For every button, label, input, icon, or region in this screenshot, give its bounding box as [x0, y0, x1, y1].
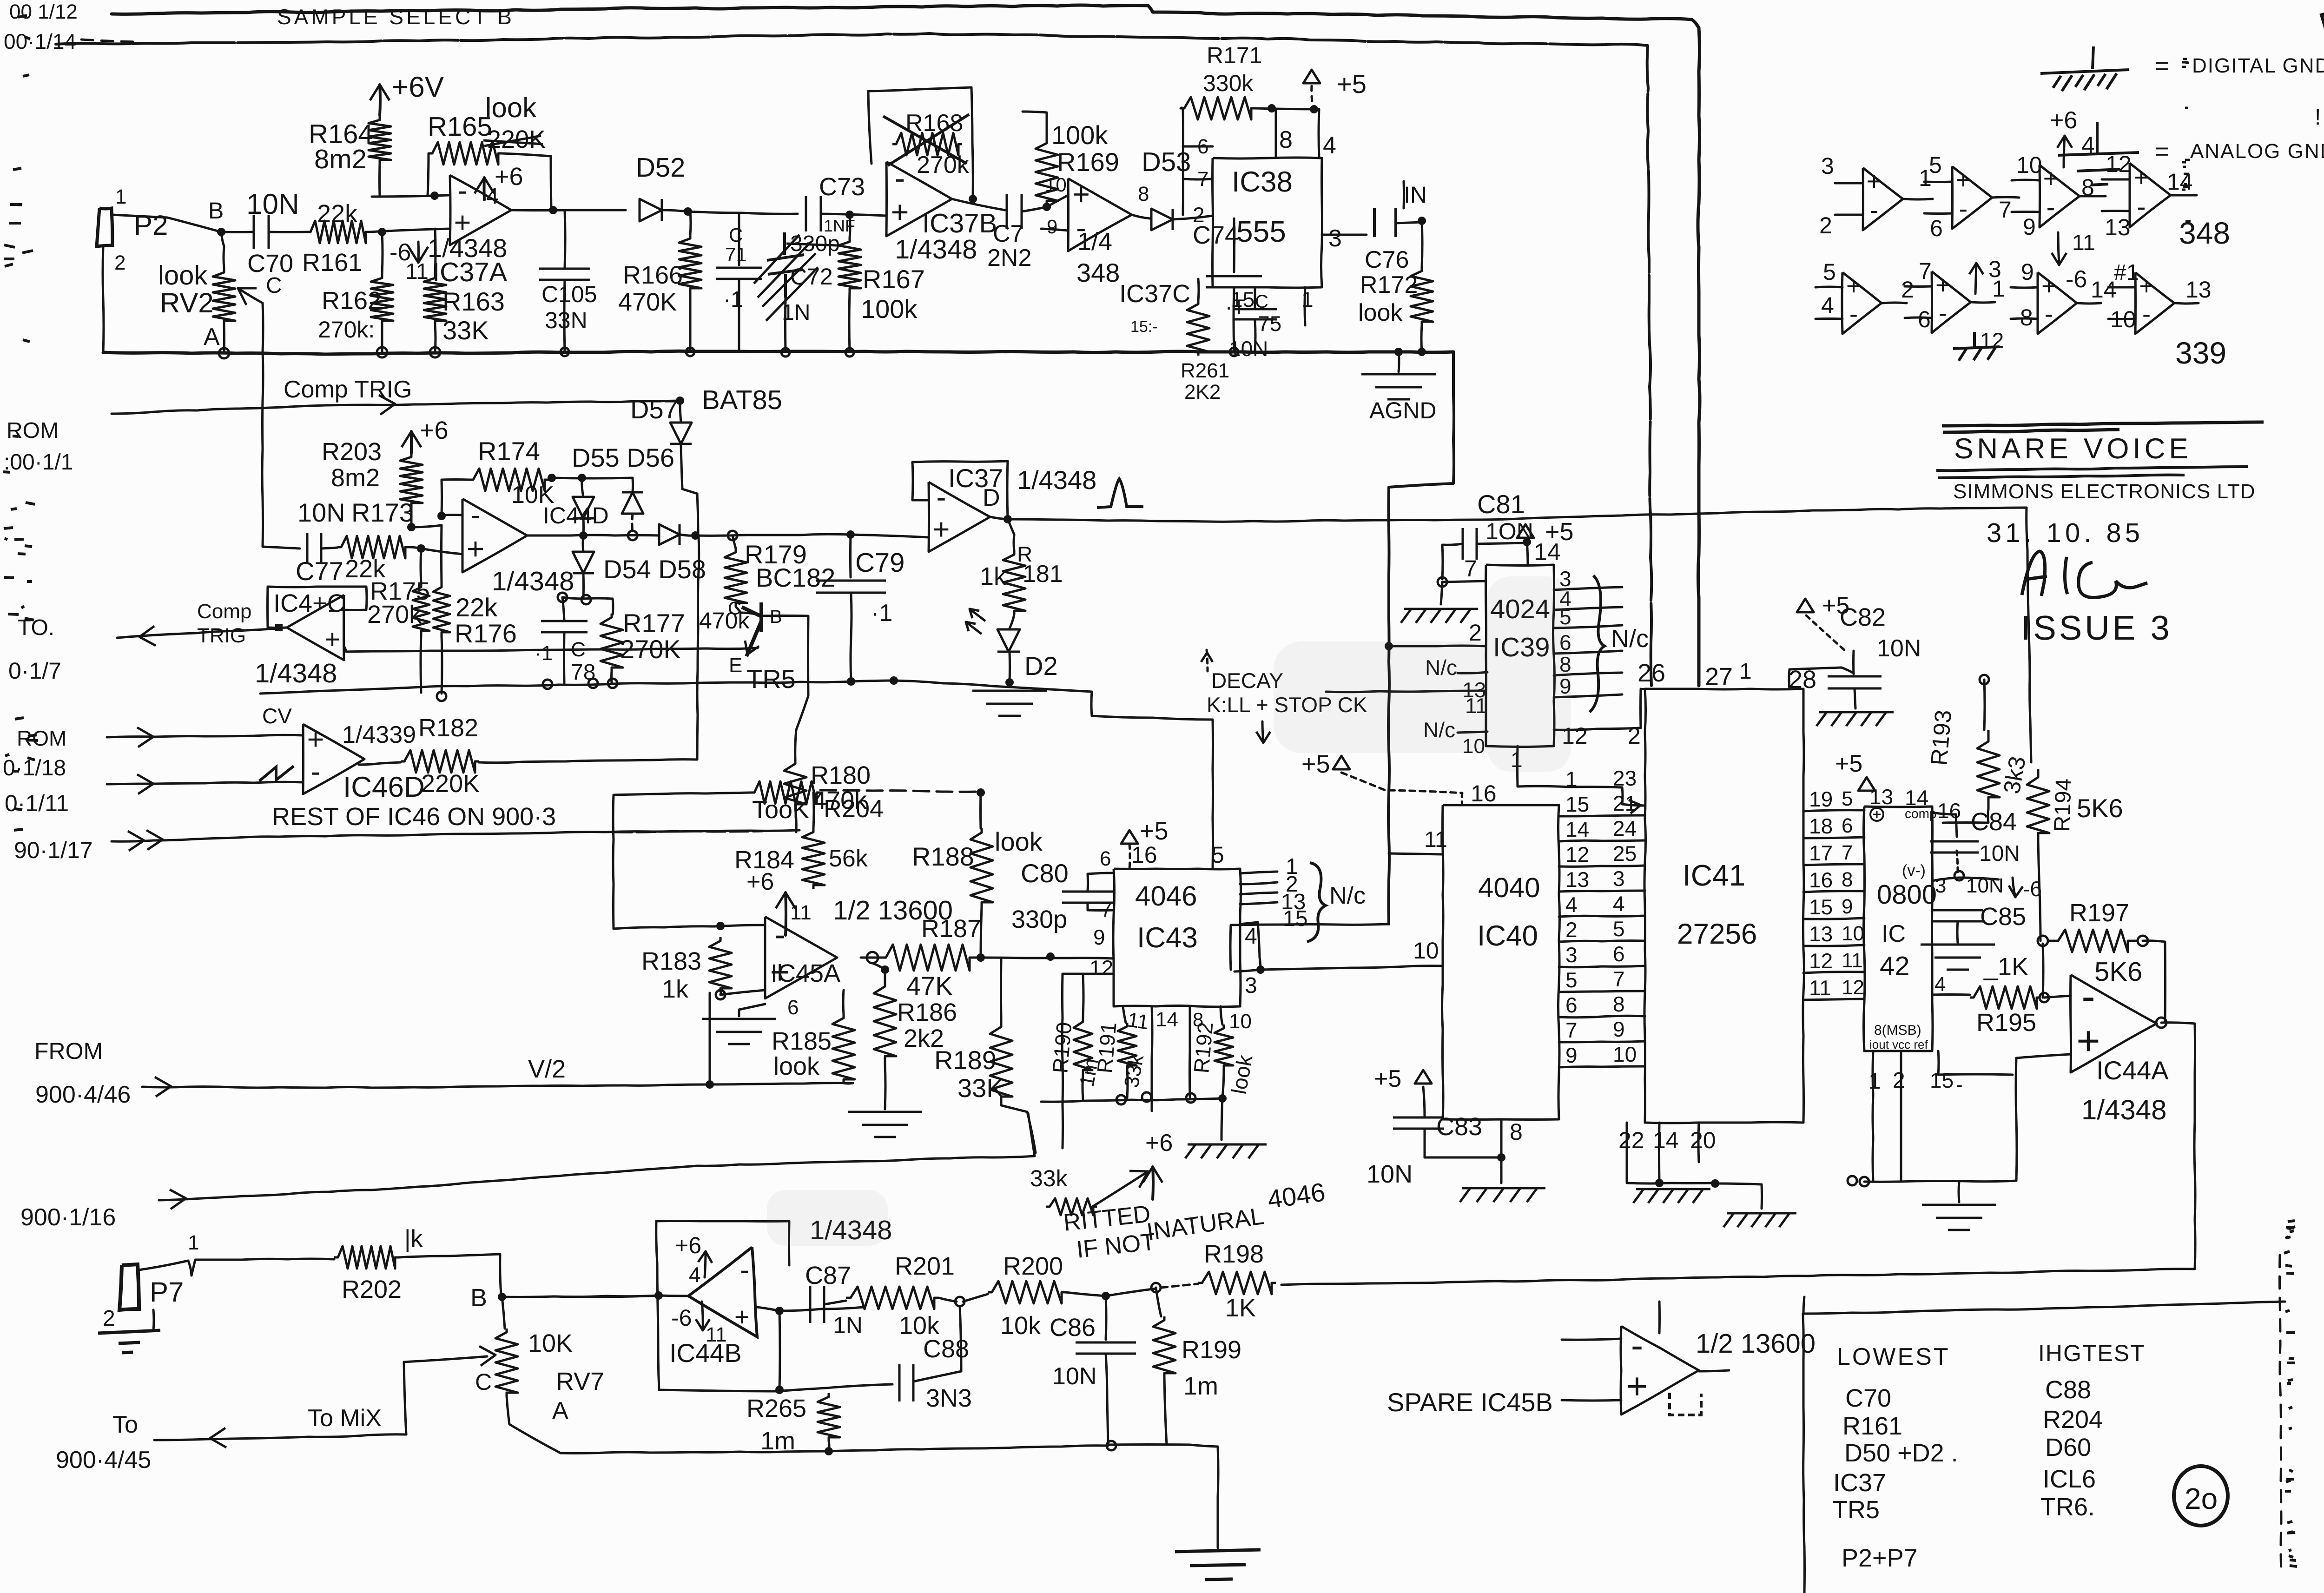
node gnd stub	[1218, 1094, 1227, 1103]
diode D57	[670, 423, 692, 444]
wire R200 right	[1065, 1289, 1156, 1296]
wire R165 left lead	[428, 153, 429, 196]
wire +5 to IC40 pin16	[1341, 773, 1462, 805]
svg-text:100k: 100k	[1051, 120, 1108, 150]
node R186 top	[881, 965, 889, 974]
svg-text:6: 6	[1842, 814, 1853, 837]
wire to C88	[826, 1384, 892, 1388]
svg-text:12: 12	[1565, 842, 1589, 866]
wire to R261	[1198, 279, 1199, 300]
resistor R161	[307, 221, 370, 243]
svg-text:R198: R198	[1204, 1240, 1264, 1268]
svg-text:R187: R187	[921, 915, 981, 943]
resistor R163	[424, 274, 446, 324]
svg-text:-: -	[740, 1254, 749, 1285]
node C73/R167	[845, 211, 854, 219]
power -6 arrow legend	[2058, 232, 2059, 265]
wire bottom rail output stage	[561, 1446, 1108, 1454]
svg-text:5: 5	[1842, 787, 1853, 810]
svg-text:R173: R173	[351, 498, 414, 527]
svg-text:R188: R188	[912, 842, 974, 871]
svg-text:270k: 270k	[917, 152, 970, 178]
wire V/2	[142, 1083, 853, 1088]
svg-text:10: 10	[1613, 1042, 1637, 1066]
wire C76 to node	[1396, 222, 1422, 223]
page number circle 20	[2174, 1466, 2228, 1526]
wire R174 right lead	[548, 478, 552, 480]
junction IC45A out	[867, 952, 878, 963]
resistor R198	[1198, 1272, 1276, 1294]
svg-text:6: 6	[1918, 306, 1931, 332]
svg-text:R204: R204	[2043, 1406, 2103, 1434]
wire IC40 pin11 stub	[1389, 853, 1443, 854]
wire to analog gnd IC42	[1959, 1182, 1959, 1202]
wiper arrow RV2	[238, 288, 263, 303]
svg-text:R202: R202	[342, 1276, 402, 1303]
wire C86 bottom	[1106, 1354, 1108, 1445]
svg-text:-: -	[1939, 298, 1947, 327]
arrow decay down	[1262, 721, 1263, 742]
junction D54 bottom	[581, 595, 591, 604]
wire IC43 pin12 down	[1062, 974, 1114, 1148]
node IC43 pin3	[1256, 965, 1265, 974]
svg-text:9: 9	[1093, 925, 1105, 949]
svg-text:R185: R185	[772, 1027, 832, 1055]
potentiometer RV2 body	[213, 269, 235, 324]
wire R204 node to R184	[813, 793, 814, 828]
svg-text:TRIG: TRIG	[197, 624, 246, 647]
svg-text:C85: C85	[1980, 903, 2026, 931]
svg-text:R165: R165	[428, 112, 492, 142]
resistor R176	[433, 583, 450, 636]
svg-text:FROM: FROM	[34, 1038, 103, 1064]
svg-text:16: 16	[1809, 868, 1833, 892]
svg-text:C7: C7	[993, 220, 1023, 247]
svg-text:900·4/46: 900·4/46	[35, 1081, 131, 1108]
wire 1N tick	[1403, 181, 1406, 208]
capacitor C78	[541, 621, 588, 632]
wire R167 to rail	[849, 292, 850, 352]
junction R177 rail	[608, 679, 617, 688]
wire decay line to IC39 pin11	[1326, 691, 1486, 692]
svg-text:C: C	[729, 224, 743, 246]
svg-text:R161: R161	[302, 249, 362, 277]
wire R193 bottom	[1943, 809, 1988, 823]
junction AGND rail	[1394, 348, 1403, 356]
capacitor C77	[307, 533, 321, 564]
wire to IC45A - input	[614, 925, 765, 929]
svg-text:D: D	[983, 484, 1000, 511]
svg-text:R203: R203	[322, 438, 382, 466]
svg-text:900·4/45: 900·4/45	[56, 1447, 151, 1474]
svg-text:6: 6	[1100, 847, 1111, 870]
capacitor C86	[1076, 1342, 1136, 1354]
wire cap to pin14 node	[1477, 543, 1527, 544]
resistor R177	[601, 614, 623, 671]
wire C78 to rail	[563, 632, 566, 683]
svg-text:33K: 33K	[442, 316, 489, 345]
svg-text:2: 2	[1193, 203, 1205, 227]
arrowhead 900.4/46	[155, 1077, 171, 1097]
digital ground legend symbol	[2040, 46, 2129, 91]
svg-text:33N: 33N	[545, 307, 588, 333]
signature	[2022, 551, 2147, 598]
svg-text:9: 9	[1565, 1043, 1578, 1067]
svg-text:78: 78	[571, 660, 595, 685]
junction RV2 rail	[219, 348, 229, 358]
svg-text:1/4348: 1/4348	[255, 658, 337, 688]
svg-text:SNARE VOICE: SNARE VOICE	[1954, 433, 2192, 465]
wire C77 to R173	[322, 548, 337, 549]
wire IC43 pin4 loop	[1240, 922, 1261, 970]
svg-text:+: +	[324, 624, 340, 654]
svg-text:11: 11	[2072, 231, 2095, 255]
wire ladder IC41 pin 18 to IC42 pin 6	[1803, 837, 1864, 838]
svg-text:IHGTEST: IHGTEST	[2038, 1340, 2146, 1366]
wire up to R189	[1028, 1113, 1035, 1156]
dash from 00.1/14	[81, 40, 139, 42]
svg-text:0·1/18: 0·1/18	[3, 756, 66, 780]
svg-text:+6V: +6V	[392, 71, 444, 103]
svg-text:TO.: TO.	[18, 615, 54, 640]
svg-text:C77: C77	[296, 556, 343, 586]
svg-text:11: 11	[790, 901, 812, 924]
op-amp IC37B	[886, 162, 952, 236]
svg-text:1k: 1k	[980, 562, 1007, 590]
svg-text:10K: 10K	[528, 1329, 573, 1357]
wire C7 to IC37C + input	[1022, 195, 1068, 212]
svg-text:RV2: RV2	[160, 287, 214, 318]
wire R165 right lead to output	[502, 153, 551, 210]
junction R197 right	[2138, 936, 2148, 946]
wire IC43 pin3 to IC40 pin10	[1235, 966, 1443, 972]
svg-text:15: 15	[1809, 895, 1833, 919]
svg-text:71: 71	[725, 244, 747, 265]
svg-text:5: 5	[1613, 917, 1625, 941]
svg-text:R172: R172	[1360, 271, 1418, 298]
LED D2 body	[997, 629, 1020, 652]
wire C71 to rail	[738, 279, 740, 352]
svg-text:C105: C105	[541, 281, 597, 307]
svg-text:11: 11	[1809, 976, 1831, 1000]
junction R201/C88	[955, 1297, 964, 1306]
power +5 marker IC43	[1121, 830, 1138, 844]
wire IC43 pin10 stub	[1221, 1006, 1222, 1025]
svg-text:R197: R197	[2069, 899, 2129, 927]
wire C75 to rail	[1255, 320, 1255, 352]
svg-text:270k: 270k	[367, 601, 422, 628]
svg-text:8(MSB): 8(MSB)	[1874, 1023, 1921, 1038]
IC IC40 (4040)	[1442, 805, 1560, 1120]
svg-text:2: 2	[1565, 918, 1578, 942]
svg-text:R186: R186	[897, 998, 957, 1026]
svg-text:21: 21	[1613, 791, 1637, 815]
wire IC45A pin6 to gnd	[739, 1004, 765, 1016]
wire ladder IC40 pin 13 to IC41 pin 3	[1559, 891, 1645, 892]
wire to R180	[795, 696, 808, 760]
wire C105 to rail	[564, 280, 565, 352]
svg-text:14: 14	[1155, 1008, 1178, 1031]
svg-text:1/4339: 1/4339	[342, 721, 416, 748]
wire ladder IC40 pin 2 to IC41 pin 5	[1559, 941, 1645, 942]
svg-text:TR5: TR5	[746, 664, 796, 694]
svg-text:26: 26	[1637, 659, 1665, 687]
svg-text:10: 10	[1045, 174, 1067, 196]
wire IC44D out main	[527, 535, 659, 535]
junction R163 rail	[430, 347, 440, 357]
wire to gnd IC41 b	[1715, 1183, 1762, 1209]
svg-text:3: 3	[1245, 973, 1257, 998]
svg-text:11: 11	[1126, 1008, 1150, 1034]
wire IC44A + down	[2016, 1054, 2071, 1181]
resistor R186	[874, 980, 896, 1063]
wire IC43 pin14 down	[1152, 1006, 1152, 1111]
svg-text:31. 10. 85: 31. 10. 85	[1987, 518, 2144, 548]
node V/2 riser	[706, 1080, 714, 1089]
wire analog rail	[103, 351, 1453, 354]
wire R175 to lower rail	[421, 635, 421, 693]
svg-text:-: -	[311, 755, 321, 788]
wire ladder IC41 pin 15 to IC42 pin 9	[1803, 918, 1864, 919]
svg-text:17: 17	[1809, 841, 1833, 865]
svg-text:10N: 10N	[1966, 874, 2004, 897]
svg-text:5K6: 5K6	[2077, 793, 2123, 823]
svg-text:R162: R162	[322, 287, 382, 315]
noise column col4700	[2182, 59, 2191, 221]
svg-text:10N: 10N	[297, 498, 345, 527]
svg-text:CV: CV	[262, 704, 292, 728]
arrowhead to 900.4/45	[210, 1428, 226, 1448]
wire IC38 pin4 stub	[1319, 109, 1319, 158]
wire R202 to node B	[399, 1254, 501, 1295]
svg-text:_1K: _1K	[1983, 953, 2028, 981]
wire R201 to node	[939, 1298, 957, 1302]
wire 0.1/18 to IC46D +	[107, 735, 303, 737]
svg-text:9: 9	[1842, 895, 1853, 918]
wire D53 to IC38 pin2	[1173, 216, 1213, 219]
junction C84/C85	[1954, 871, 1964, 880]
wire IC46D out to R182	[359, 762, 401, 765]
svg-text:RV7: RV7	[556, 1368, 604, 1395]
svg-text:R204: R204	[824, 795, 884, 823]
svg-text:1N: 1N	[833, 1312, 863, 1338]
wire R188 to node	[981, 906, 982, 957]
digital ground IC40	[1460, 1188, 1545, 1202]
capacitor C76	[1374, 208, 1396, 237]
svg-text:3: 3	[1935, 874, 1946, 897]
svg-text:+: +	[307, 723, 324, 756]
svg-text:-: -	[470, 497, 481, 532]
scan noise right corner	[2322, 9, 2324, 41]
arrowhead 90.1/17	[146, 830, 163, 850]
svg-text:look: look	[773, 1052, 820, 1080]
wire R166 to rail	[689, 292, 692, 352]
svg-text:15: 15	[1283, 906, 1307, 931]
op-amp legend A2 body	[1952, 166, 1992, 229]
svg-text:!: !	[2315, 105, 2321, 130]
resistor R162	[371, 274, 393, 324]
wire rail to gnd stub	[1108, 1445, 1218, 1548]
table top border	[1803, 1297, 1804, 1314]
node IC37B out	[969, 195, 977, 203]
wire ladder IC40 pin 9 to IC41 pin 10	[1559, 1066, 1645, 1067]
node C86	[1102, 1292, 1110, 1300]
svg-text:1m: 1m	[1076, 1057, 1103, 1089]
svg-text:7: 7	[1999, 197, 2012, 223]
digital ground legend 339	[1953, 332, 2000, 361]
svg-text:10: 10	[1842, 922, 1864, 945]
svg-text:+5: +5	[1337, 69, 1367, 99]
svg-text:=: =	[2155, 138, 2170, 165]
wire IC37B out to C7	[952, 199, 1005, 210]
svg-text:9: 9	[1613, 1017, 1625, 1041]
svg-text:B: B	[208, 198, 224, 224]
wire R201 to R200	[963, 1294, 988, 1302]
waveform spike glyph	[1097, 479, 1143, 508]
svg-text:-6: -6	[2066, 266, 2087, 293]
svg-text:C76: C76	[1365, 246, 1409, 273]
ground output stage	[1175, 1550, 1261, 1580]
svg-text:TR5: TR5	[1832, 1496, 1880, 1524]
wire IC37D out long right	[990, 517, 1479, 522]
wire node to R172	[1422, 221, 1422, 267]
wire dashed into IC45A	[614, 831, 762, 832]
digital ground IC41 b	[1723, 1213, 1796, 1227]
resistor R167	[838, 238, 861, 292]
svg-text:4040: 4040	[1478, 872, 1540, 903]
wire R265 down	[829, 1441, 829, 1451]
wire into IC44B	[576, 1296, 688, 1297]
svg-text:R193: R193	[1926, 709, 1956, 767]
svg-text:A: A	[204, 324, 220, 350]
svg-text:8: 8	[1138, 183, 1149, 205]
svg-text:-: -	[2137, 192, 2146, 222]
op-amp U IC37A	[450, 175, 511, 245]
svg-text:47K: 47K	[906, 971, 953, 1000]
wire node to R166	[690, 212, 691, 235]
svg-text:#1: #1	[2114, 260, 2139, 285]
svg-text:19: 19	[1809, 787, 1833, 811]
wire R176 down	[442, 636, 442, 694]
op-amp IC44B (mirrored)	[688, 1247, 757, 1337]
N/C brace IC43	[1307, 863, 1326, 942]
wire C87 to R201	[825, 1301, 846, 1304]
wire R195 to R197 feedback	[2043, 944, 2043, 998]
wire D54 bottom tee	[562, 597, 613, 615]
wire cap left down	[1442, 544, 1462, 579]
svg-text:Comp: Comp	[197, 600, 251, 623]
svg-text:27: 27	[1705, 663, 1733, 691]
svg-text:R192: R192	[1189, 1021, 1217, 1074]
capacitor C7	[1007, 194, 1022, 229]
wire IC42 pin15	[1938, 1051, 2013, 1075]
wire R174node to R176	[440, 525, 443, 583]
svg-text:900·1/16: 900·1/16	[20, 1204, 116, 1231]
capacitor C74	[1206, 276, 1262, 287]
op-amp legend B4 body	[2135, 272, 2174, 334]
node D58 out	[691, 531, 700, 540]
resistor R192	[1215, 1025, 1233, 1069]
svg-text:8: 8	[1279, 126, 1293, 153]
wire C81 long to R194	[1479, 508, 2031, 762]
wire IC37A+ to R163	[435, 229, 436, 274]
svg-text:12: 12	[1980, 328, 2004, 352]
svg-text:7: 7	[1919, 258, 1932, 284]
svg-text:0800: 0800	[1877, 879, 1937, 910]
svg-text:5: 5	[1929, 152, 1942, 178]
label DECAY note	[1207, 650, 1208, 671]
svg-text:+6: +6	[495, 163, 523, 191]
wire ladder IC40 pin 5 to IC41 pin 7	[1559, 991, 1645, 992]
capacitor C70	[254, 215, 269, 249]
svg-text:13: 13	[2185, 277, 2212, 303]
svg-text:look: look	[1358, 299, 1403, 326]
wire R162 to rail	[381, 324, 383, 352]
resistor R199	[1153, 1316, 1175, 1377]
resistor R173	[337, 536, 409, 558]
svg-text:+: +	[1072, 177, 1090, 211]
pot scribble body	[1046, 1198, 1097, 1215]
svg-text:1K: 1K	[1225, 1294, 1256, 1322]
svg-text:16: 16	[1937, 799, 1961, 823]
resistor R187	[878, 945, 977, 971]
capacitor C88	[899, 1364, 913, 1401]
svg-text:8: 8	[2020, 304, 2033, 330]
wire out to R187	[861, 957, 878, 959]
svg-text:33k: 33k	[1030, 1165, 1068, 1191]
analog ground legend symbol	[2058, 122, 2139, 185]
wire R197 to out	[2143, 941, 2166, 1022]
svg-text:N/c: N/c	[1611, 625, 1649, 653]
svg-text:-: -	[895, 161, 905, 196]
svg-text:IC46D: IC46D	[343, 771, 425, 803]
node IC44B out	[775, 1307, 784, 1315]
junction C78 rail	[543, 680, 552, 689]
svg-text:IC37: IC37	[1833, 1469, 1886, 1497]
svg-text:6: 6	[787, 996, 799, 1019]
resistor R203	[400, 453, 423, 507]
wire IC41 pin28 to +5/C82	[1789, 668, 1854, 689]
svg-text:R169: R169	[1057, 147, 1119, 177]
svg-text:1m: 1m	[1183, 1372, 1218, 1400]
resistor R182	[401, 750, 479, 773]
svg-text:D57: D57	[630, 395, 678, 424]
wire out to R181	[1008, 519, 1014, 551]
svg-text:R176: R176	[455, 619, 517, 648]
junction R172 rail	[1418, 348, 1426, 356]
wire to C79	[849, 535, 852, 577]
op-amp IC45B (spare)	[1621, 1326, 1699, 1415]
svg-text:23: 23	[1613, 766, 1637, 790]
wire R179 to TR5 collector	[736, 607, 758, 615]
capacitor C73	[806, 196, 821, 231]
junction R179 top	[728, 531, 737, 540]
wire trig to D57	[680, 401, 681, 423]
wire main to IC37D	[680, 534, 929, 537]
svg-text:V/2: V/2	[528, 1055, 566, 1083]
svg-text:·1: ·1	[535, 642, 553, 665]
wire IC42 pin16 to C84	[1932, 813, 1957, 837]
op-amp legend B1 body	[1842, 272, 1882, 334]
arrowhead 90.1/17 b	[128, 831, 144, 851]
junction C74 rail	[1230, 348, 1238, 356]
svg-text:IN: IN	[1404, 182, 1427, 208]
svg-text:10k: 10k	[1000, 1312, 1041, 1340]
wire IC44B feedback top	[656, 1221, 789, 1266]
wire riser to IC45A +	[709, 993, 711, 1084]
svg-text:+: +	[1867, 166, 1882, 196]
wire R191 to rail	[1127, 1069, 1128, 1098]
